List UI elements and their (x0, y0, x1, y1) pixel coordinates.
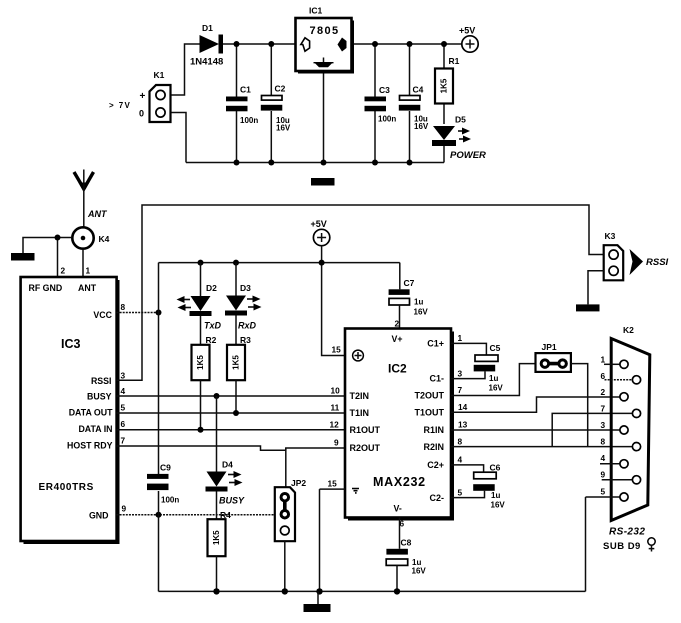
+5V supply (middle) (311, 219, 330, 246)
svg-text:C2+: C2+ (427, 460, 444, 470)
wire RF GND riser (57, 238, 59, 278)
svg-text:1u: 1u (414, 298, 423, 307)
svg-text:IC3: IC3 (61, 337, 81, 351)
svg-text:D1: D1 (202, 23, 213, 33)
connector K1 (109, 70, 171, 122)
regulator IC1 7805 (296, 6, 355, 74)
svg-text:DATA IN: DATA IN (78, 424, 112, 434)
svg-text:GND: GND (89, 511, 109, 521)
svg-text:3: 3 (601, 420, 606, 430)
resistor R1 1K5 (435, 56, 460, 104)
svg-text:C5: C5 (490, 343, 501, 353)
capacitor C3 100n (365, 85, 397, 124)
antenna (74, 170, 108, 228)
svg-text:8: 8 (458, 437, 463, 447)
wire K4 to ground / RF GND (23, 238, 72, 254)
wire K2 pin5 to bottom rail (585, 497, 587, 591)
svg-text:ANT: ANT (78, 283, 97, 293)
svg-text:ER400TRS: ER400TRS (39, 482, 94, 493)
svg-text:100n: 100n (240, 116, 258, 125)
capacitor C9 100n (147, 463, 179, 505)
svg-text:2: 2 (61, 266, 66, 276)
svg-text:JP1: JP1 (542, 342, 557, 352)
wire JP2 bottom to rail (284, 541, 286, 591)
svg-text:C7: C7 (404, 278, 415, 288)
svg-text:+: + (140, 91, 146, 102)
ground (top section) (311, 178, 335, 186)
pin 1 (604, 363, 620, 365)
female symbol (648, 538, 655, 552)
svg-text:10: 10 (331, 386, 341, 396)
svg-text:R3: R3 (240, 335, 251, 345)
ground symbol inside (pin 15 bottom) (352, 489, 359, 493)
svg-text:4: 4 (458, 455, 463, 465)
wire JP1 right riser to R2IN line (571, 364, 588, 447)
svg-text:6: 6 (121, 419, 126, 429)
pin 2 (620, 393, 628, 401)
pin 9 (602, 479, 633, 481)
wire BUSY line pin4 to T2IN (117, 395, 346, 397)
svg-text:T2OUT: T2OUT (414, 391, 444, 401)
capacitor C1 100n (226, 85, 258, 126)
svg-text:V-: V- (394, 504, 402, 514)
node dot K4/RFGND (55, 235, 61, 241)
wire DATA OUT line pin5 to T1IN (117, 412, 346, 414)
svg-text:IC2: IC2 (388, 362, 407, 376)
wire C5 bottom to C1- pin3 (451, 371, 485, 378)
svg-text:11: 11 (331, 403, 340, 413)
svg-text:16V: 16V (414, 122, 429, 131)
svg-text:9: 9 (122, 504, 127, 514)
svg-text:100n: 100n (161, 496, 179, 505)
connector K4 (72, 227, 109, 248)
wire T1OUT to K2 pin2 (jog) (451, 397, 620, 412)
svg-text:JP2: JP2 (291, 478, 306, 488)
svg-text:7: 7 (458, 385, 463, 395)
svg-text:8: 8 (121, 302, 126, 312)
wire D1 cathode to IC1 input (223, 43, 296, 45)
svg-text:1K5: 1K5 (196, 355, 205, 370)
svg-text:15: 15 (332, 345, 342, 355)
svg-text:3: 3 (121, 371, 126, 381)
wire RSSI pin3 riser to K3 line (117, 205, 604, 380)
wire K4 to IC3 ANT (82, 249, 84, 277)
svg-text:2: 2 (601, 387, 606, 397)
svg-text:T2IN: T2IN (350, 391, 370, 401)
wire C7 to V+ pin2 (399, 305, 401, 329)
wire C9 bottom to GND line (158, 491, 160, 515)
svg-text:RF GND: RF GND (29, 283, 63, 293)
wire C6 bottom to C2- pin5 (451, 491, 485, 498)
node dot pin15/rail (316, 588, 322, 594)
pin 8 (632, 443, 640, 451)
svg-text:K2: K2 (623, 325, 634, 335)
svg-text:R4: R4 (220, 510, 231, 520)
pin 4 (600, 463, 620, 465)
svg-text:C1-: C1- (429, 374, 444, 384)
svg-text:V+: V+ (392, 334, 403, 344)
wire JP2 riser from HOST RDY net (285, 448, 287, 487)
wire K3 pin2 to ground (588, 271, 604, 305)
pin 5 (586, 496, 620, 498)
ground (bottom) (317, 591, 319, 604)
power symbol pin 15 (353, 350, 364, 361)
wire C8 to rail (396, 565, 398, 591)
svg-text:16V: 16V (412, 567, 427, 576)
wire C1 branch (236, 44, 238, 97)
pin 3 (620, 426, 628, 434)
wire pin15 riser to bottom rail (319, 489, 321, 591)
svg-text:T1IN: T1IN (350, 408, 370, 418)
LED D3 RxD (225, 263, 262, 331)
wire IC1 ground pin to rail (323, 71, 325, 163)
svg-text:POWER: POWER (450, 150, 486, 161)
svg-text:TxD: TxD (204, 321, 222, 331)
ground (K4) (11, 253, 35, 261)
wire VCC pin8 (117, 312, 159, 314)
RSSI arrow (630, 249, 669, 275)
svg-text:16V: 16V (489, 384, 504, 393)
svg-text:R1IN: R1IN (423, 425, 444, 435)
svg-text:8: 8 (601, 437, 606, 447)
wire bottom ground rail (159, 590, 586, 592)
jumper JP2 (275, 478, 307, 541)
svg-text:C3: C3 (379, 85, 390, 95)
node dot C8/rail (394, 588, 400, 594)
wire K2 pin7 riser from R2IN line (552, 413, 632, 446)
svg-text:C2-: C2- (429, 493, 444, 503)
svg-text:1u: 1u (491, 491, 500, 500)
wire R1 riser (443, 44, 445, 69)
wire R2IN to K2 pin8 (451, 446, 632, 448)
svg-text:7805: 7805 (310, 25, 340, 37)
svg-text:1K5: 1K5 (212, 530, 221, 545)
svg-text:2: 2 (395, 319, 400, 329)
svg-text:4: 4 (121, 386, 126, 396)
wire GND line pin9 to JP2 middle (117, 514, 275, 516)
wire R1 to D5 (443, 104, 445, 125)
svg-text:R2OUT: R2OUT (350, 443, 381, 453)
svg-text:ANT: ANT (87, 209, 108, 219)
node dot C1/rail (234, 160, 240, 166)
wire +5V rail (159, 262, 400, 264)
svg-text:C2: C2 (275, 84, 286, 94)
capacitor C8 1u 16V (386, 538, 426, 576)
svg-text:MAX232: MAX232 (373, 475, 426, 489)
diode D1 1N4148 (190, 23, 223, 68)
node dot C4/top (407, 41, 413, 47)
svg-text:5: 5 (121, 403, 126, 413)
svg-text:RxD: RxD (238, 321, 257, 331)
svg-text:4: 4 (601, 453, 606, 463)
node dot VCC (156, 310, 162, 316)
svg-text:C4: C4 (413, 85, 424, 95)
wire K1 pin2 down to bottom rail (165, 113, 186, 163)
svg-text:RS-232: RS-232 (609, 527, 645, 538)
wire C9/GND down to bottom rail (158, 515, 160, 592)
svg-text:7: 7 (121, 436, 126, 446)
node dot C1/top (234, 41, 240, 47)
wire bottom rail top section (186, 162, 444, 164)
svg-text:D4: D4 (222, 460, 233, 470)
LED D2 TxD (177, 263, 222, 331)
svg-text:6: 6 (601, 371, 606, 381)
node dot C3/rail (372, 160, 378, 166)
wire C4 branch (409, 44, 411, 95)
svg-text:5: 5 (601, 487, 606, 497)
svg-text:1N4148: 1N4148 (190, 57, 223, 68)
wire IC1 output to +5V (352, 43, 463, 45)
node dot D3 rail (233, 260, 239, 266)
node dot R1/top (441, 41, 447, 47)
wire pin15 bottom stub (320, 488, 346, 490)
pin 6 (605, 379, 633, 381)
svg-text:15: 15 (328, 479, 338, 489)
svg-text:BUSY: BUSY (219, 496, 245, 506)
svg-text:RSSI: RSSI (646, 257, 669, 268)
svg-text:D5: D5 (455, 115, 466, 125)
jumper JP1 (536, 342, 571, 372)
svg-text:R2IN: R2IN (423, 442, 444, 452)
svg-text:K4: K4 (99, 234, 110, 244)
wire +5V rail left riser down to VCC and C9 (158, 263, 160, 474)
svg-text:C1: C1 (240, 85, 251, 95)
node dot +5V stem (319, 260, 325, 266)
svg-text:C6: C6 (490, 463, 501, 473)
resistor R3 1K5 (227, 316, 251, 414)
svg-text:IC1: IC1 (309, 6, 323, 16)
svg-text:9: 9 (601, 470, 606, 480)
svg-text:HOST RDY: HOST RDY (67, 441, 113, 451)
svg-text:R1: R1 (449, 56, 460, 66)
svg-text:0: 0 (139, 109, 144, 119)
connector K3 RSSI (604, 231, 624, 280)
svg-text:1: 1 (86, 266, 91, 276)
node dot C2/rail (268, 160, 274, 166)
svg-text:K3: K3 (605, 231, 616, 241)
capacitor C6 1u 16V (473, 463, 505, 510)
svg-text:9: 9 (334, 438, 339, 448)
wire +5V to MAX232 pin15 (322, 263, 345, 356)
svg-text:T1OUT: T1OUT (414, 408, 444, 418)
svg-text:1K5: 1K5 (232, 355, 241, 370)
svg-text:14: 14 (458, 402, 468, 412)
LED D4 BUSY (206, 396, 246, 506)
svg-text:16V: 16V (414, 308, 429, 317)
LED D5 POWER (432, 115, 486, 162)
+5V supply (top right) (459, 26, 478, 53)
svg-text:+5V: +5V (311, 219, 327, 229)
resistor R2 1K5 (192, 316, 217, 430)
svg-text:DATA OUT: DATA OUT (69, 408, 113, 418)
wire K1 pin1 to D1 anode (165, 44, 200, 95)
capacitor C2 10u 16V (polarized) (261, 84, 291, 133)
node dot D4/BUSY (214, 393, 220, 399)
IC IC2 MAX232 (345, 329, 454, 521)
svg-text:+5V: +5V (459, 26, 475, 36)
node dot GND/C9 (156, 512, 162, 518)
svg-text:VCC: VCC (93, 310, 112, 320)
svg-text:R2: R2 (206, 335, 217, 345)
node dot R2/DATAIN (198, 427, 204, 433)
svg-text:R1OUT: R1OUT (350, 425, 381, 435)
node dot C3/top (372, 41, 378, 47)
node dot C2/top (268, 41, 274, 47)
svg-text:BUSY: BUSY (87, 392, 112, 402)
svg-text:3: 3 (458, 369, 463, 379)
capacitor C7 1u 16V (389, 278, 429, 317)
node dot R4/rail (213, 588, 219, 594)
svg-text:> 7V: > 7V (109, 101, 131, 110)
svg-text:12: 12 (330, 419, 340, 429)
wire R1IN to K2 pin3 (451, 429, 620, 431)
svg-text:100n: 100n (378, 115, 396, 124)
svg-text:1K5: 1K5 (440, 78, 449, 93)
node dot D2 rail (198, 260, 204, 266)
capacitor C4 10u 16V (polarized) (399, 85, 429, 132)
resistor R4 1K5 (208, 492, 232, 592)
wire C2+ pin4 to C6 (451, 465, 484, 472)
svg-text:C1+: C1+ (427, 339, 444, 349)
wire C3 branch (374, 44, 376, 97)
svg-text:7: 7 (601, 404, 606, 414)
pin 7 (632, 409, 640, 417)
IC3 ER400TRS (21, 277, 120, 544)
node dot C4/rail (407, 160, 413, 166)
wire DATA IN line pin6 to R1OUT (117, 429, 346, 431)
connector K2 SUB D9 (611, 325, 650, 521)
svg-text:1u: 1u (489, 374, 498, 383)
svg-text:SUB D9: SUB D9 (603, 541, 641, 552)
wire D5 to rail (443, 144, 445, 163)
node dot JP2/rail (282, 588, 288, 594)
wire +5V rail right to C7 (399, 263, 401, 290)
svg-text:16V: 16V (491, 501, 506, 510)
svg-text:D2: D2 (206, 283, 217, 293)
wire V- pin6 to C8 (399, 518, 401, 549)
svg-text:13: 13 (458, 420, 468, 430)
wire C1+ pin1 to C5 (451, 343, 486, 354)
svg-text:RSSI: RSSI (91, 376, 112, 386)
svg-text:1: 1 (601, 355, 606, 365)
wire C2 branch (270, 44, 272, 95)
svg-text:5: 5 (458, 488, 463, 498)
ground (K3) (576, 304, 600, 311)
svg-text:K1: K1 (154, 70, 165, 80)
node dot IC1gnd/rail (321, 160, 327, 166)
wire HOST RDY line pin7 to R2OUT with jog (117, 446, 286, 450)
svg-text:C8: C8 (401, 538, 412, 548)
capacitor C5 1u 16V (474, 343, 504, 393)
svg-text:C9: C9 (160, 463, 171, 473)
node dot R3/DATAOUT (233, 410, 239, 416)
wire +5V stem (321, 245, 323, 262)
wire T2OUT to JP1 left riser (451, 364, 536, 396)
svg-text:16V: 16V (276, 124, 291, 133)
svg-text:1: 1 (458, 333, 463, 343)
svg-text:D3: D3 (240, 283, 251, 293)
